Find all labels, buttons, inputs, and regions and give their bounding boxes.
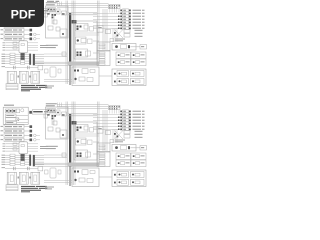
wire bbox=[19, 17, 28, 19]
wire drop B x112.1 bbox=[111, 110, 113, 114]
component A-A8 bbox=[45, 69, 49, 73]
wire bbox=[112, 28, 114, 42]
crossover wires A bbox=[115, 30, 124, 39]
wire ladder A row4 bbox=[3, 49, 6, 52]
page header text bbox=[47, 0, 59, 3]
relay B-K5 bbox=[97, 126, 103, 133]
switch A-S2 bbox=[1, 29, 4, 30]
wire stub B l3 bbox=[28, 150, 39, 152]
wire bbox=[61, 2, 63, 7]
wire bbox=[57, 3, 109, 5]
splice dot A-P4 bbox=[118, 22, 120, 24]
wire drop B x114.4 bbox=[113, 110, 115, 114]
wire bbox=[24, 130, 30, 132]
label A-E7 bbox=[133, 28, 142, 29]
junction box B-U4 bbox=[72, 168, 99, 187]
sensor row A-R1 bbox=[2, 53, 6, 56]
label A-E5 bbox=[133, 22, 142, 23]
wire bbox=[68, 12, 97, 14]
wire bbox=[93, 26, 99, 28]
lamp B-E1 bbox=[120, 111, 122, 113]
terminal A-XT1 bbox=[30, 24, 33, 27]
component A-A1 bbox=[62, 11, 67, 15]
bus wire x66 B bbox=[65, 102, 67, 186]
component B-A4 bbox=[56, 128, 60, 132]
bus wire x73.5 A bbox=[73, 1, 75, 85]
terminal B-XT4 bbox=[30, 139, 33, 142]
bus wire x105 A bbox=[104, 9, 106, 50]
lamp A-E5 bbox=[93, 21, 121, 23]
wire bbox=[44, 154, 67, 156]
component B-A1 bbox=[62, 112, 67, 116]
resistor A-R10 bbox=[124, 30, 130, 33]
label mid A bbox=[46, 45, 58, 46]
crossover wires B bbox=[115, 131, 124, 140]
bus wire x66 A bbox=[65, 1, 67, 85]
label cluster0 A bbox=[135, 30, 143, 31]
module A-M1 bbox=[7, 71, 16, 83]
connector bar A-XB1 bbox=[29, 54, 31, 65]
connector group A-G1 bbox=[116, 52, 131, 59]
sensor row B-R5 bbox=[2, 163, 6, 166]
switch B-S3 bbox=[1, 135, 4, 136]
terminal B-XT2 bbox=[30, 130, 33, 133]
wire bbox=[57, 7, 109, 9]
connector A-X3 bbox=[56, 9, 60, 14]
lamp A-E2 bbox=[93, 12, 121, 14]
wire drop A x114.4 bbox=[113, 9, 115, 13]
splice ring A-SR4 bbox=[34, 38, 37, 41]
PDF badge bbox=[0, 0, 44, 27]
harness band A bbox=[68, 62, 99, 66]
terminal B-XT3 bbox=[30, 134, 33, 137]
connector group B-G4 bbox=[131, 160, 146, 167]
wire bbox=[44, 79, 72, 81]
splice cluster A bbox=[52, 14, 57, 18]
wire bbox=[57, 104, 109, 106]
terminal block A-TB1 bbox=[97, 42, 110, 51]
terminal A-T5 bbox=[99, 61, 105, 63]
svg-text:PDF: PDF bbox=[11, 7, 36, 21]
splice ring B-SR4 bbox=[34, 139, 37, 142]
fuse A-F2 bbox=[13, 47, 17, 49]
lamp B-E4 bbox=[93, 119, 121, 121]
lamp A-E6 bbox=[93, 24, 121, 26]
bus wire x97.5 A bbox=[97, 1, 99, 65]
link B-J1 bbox=[18, 177, 20, 179]
wire bbox=[17, 122, 29, 124]
net label A-N2 bbox=[46, 4, 55, 5]
connector group B-G1 bbox=[116, 153, 131, 160]
wire bbox=[116, 129, 118, 143]
ground bus bar B bbox=[69, 114, 71, 167]
wire ladder A row2 bbox=[3, 44, 6, 47]
wire tag dash bbox=[47, 13, 50, 14]
fuse B-F2 bbox=[13, 148, 17, 150]
connector assembly B-CA2 bbox=[76, 138, 87, 145]
wire bbox=[44, 182, 72, 184]
wire bbox=[44, 81, 72, 83]
wire bbox=[35, 162, 68, 164]
label mid B bbox=[46, 146, 58, 147]
bus wire x99 B bbox=[98, 102, 100, 166]
connector B-X3 bbox=[56, 110, 60, 115]
bus wire x73.5 B bbox=[73, 102, 75, 186]
wire ladder B row4 bbox=[3, 150, 6, 153]
diode A-D1 bbox=[106, 30, 111, 34]
splice ring A-SR3 bbox=[34, 33, 37, 36]
label A-ECU bbox=[4, 4, 14, 5]
splice cluster B bbox=[52, 115, 57, 119]
terminal B-T3 bbox=[99, 158, 105, 160]
inline connector A-X5 bbox=[112, 44, 136, 51]
wire ladder B row1 bbox=[3, 142, 6, 145]
terminal strip A-TS1 bbox=[97, 51, 110, 66]
wire bbox=[35, 165, 68, 167]
switch A-S3 bbox=[1, 34, 4, 35]
wire bbox=[19, 118, 28, 120]
relay A-K5 bbox=[97, 25, 103, 32]
terminal B-T4 bbox=[99, 160, 105, 162]
connector bar B-XB2 bbox=[33, 155, 35, 166]
label cluster1 A bbox=[135, 33, 143, 34]
ground wire continuation A bbox=[69, 66, 71, 85]
inline connector A-X2 label box bbox=[32, 9, 50, 13]
label cluster0 B bbox=[135, 131, 143, 132]
lamp A-E1 bbox=[120, 10, 122, 12]
terminal A-XT2 bbox=[30, 29, 33, 32]
control unit A-U1 bbox=[3, 6, 28, 23]
wire tag dash bbox=[47, 114, 50, 115]
harness band B bbox=[68, 163, 99, 167]
splice dot A-P3 bbox=[118, 19, 120, 21]
component A-A9 bbox=[62, 52, 66, 56]
wire drop B x109.8 bbox=[109, 110, 111, 114]
wire bbox=[24, 134, 30, 136]
wire bbox=[44, 56, 67, 58]
wire bbox=[44, 180, 72, 182]
wire ladder A row3 bbox=[3, 46, 6, 49]
resistor B-R11 bbox=[124, 135, 130, 138]
terminal B-T5 bbox=[99, 162, 105, 164]
bus wire x97.5 B bbox=[97, 102, 99, 166]
terminal A-XT3 bbox=[30, 33, 33, 36]
wire bbox=[35, 61, 68, 63]
wire bbox=[93, 141, 99, 143]
net label A-N1 bbox=[46, 2, 57, 3]
wire bbox=[61, 103, 63, 108]
terminal A-T3 bbox=[99, 57, 105, 59]
connector group A-G4 bbox=[131, 59, 146, 66]
filter A-Z1 bbox=[38, 66, 43, 70]
bus wire x99 A bbox=[98, 1, 100, 65]
connector cells B-U1 row1 bbox=[6, 109, 20, 113]
resistor A-R11 bbox=[124, 34, 130, 37]
connector pair box B-U5 bbox=[112, 170, 146, 187]
component B-A6 bbox=[50, 168, 56, 178]
component B-A8 bbox=[45, 170, 49, 174]
connector group B-G3 bbox=[116, 160, 131, 167]
wire bbox=[75, 135, 100, 137]
wire drop A x116.7 bbox=[116, 9, 118, 13]
splice dot A-P10 bbox=[114, 32, 116, 34]
wire ladder B row2 bbox=[3, 145, 6, 148]
wire bbox=[112, 129, 114, 143]
relay A-K1 bbox=[6, 13, 17, 16]
connector pair A-CP1 bbox=[114, 73, 116, 75]
module B-M2 bbox=[19, 172, 28, 184]
wire tag dash bbox=[62, 114, 65, 115]
wire stub A l2 bbox=[28, 47, 39, 49]
component A-A4 bbox=[56, 27, 60, 31]
resistor B-R10 bbox=[124, 131, 130, 134]
inline connector B-X5 bbox=[112, 145, 136, 152]
component A-A2 bbox=[53, 20, 57, 24]
connector bar B-XB1 bbox=[29, 155, 31, 166]
lamp B-E5 bbox=[93, 122, 121, 124]
capacitor B-C2 bbox=[26, 167, 29, 170]
harness box B-U2 bbox=[46, 107, 69, 139]
indicator B-L1 bbox=[21, 109, 24, 112]
filter B-Z1 bbox=[38, 167, 43, 171]
connector pair B-CP2 bbox=[114, 182, 116, 184]
wire bbox=[57, 108, 109, 110]
capacitor A-C2 bbox=[26, 66, 29, 69]
label B-E1 bbox=[133, 111, 142, 112]
splice dot A-P2 bbox=[118, 16, 120, 18]
wire bbox=[24, 29, 30, 31]
connector pair box A-U5 bbox=[112, 69, 146, 86]
label cluster1 B bbox=[135, 134, 143, 135]
wire drop B x119.0 bbox=[118, 110, 120, 114]
label B-E3 bbox=[133, 117, 142, 118]
label cluster2 B bbox=[135, 137, 143, 138]
sensor row A-R4 bbox=[2, 60, 6, 63]
component A-A5 bbox=[60, 29, 67, 37]
wire bbox=[35, 164, 68, 166]
bus wire x107 A bbox=[106, 9, 108, 50]
bus wire x75 B bbox=[74, 102, 76, 186]
wire bbox=[75, 133, 100, 135]
wire bbox=[24, 38, 30, 40]
wire bbox=[24, 126, 30, 128]
wire bbox=[68, 113, 97, 115]
terminal strip B-TS1 bbox=[97, 152, 110, 167]
switch A-S4 bbox=[1, 38, 4, 39]
splice dot B-P2 bbox=[118, 117, 120, 119]
label B-ECU bbox=[4, 105, 14, 106]
junction box A-U4 bbox=[72, 67, 99, 86]
wire bbox=[68, 14, 97, 16]
connector B-X4 bbox=[44, 114, 47, 118]
component A-A3 bbox=[48, 26, 53, 30]
terminal A-T4 bbox=[99, 59, 105, 61]
bus wire x103 A bbox=[102, 9, 104, 50]
terminal B-XT1 bbox=[30, 125, 33, 128]
label A-E1 bbox=[133, 10, 142, 11]
label cluster2 A bbox=[135, 36, 143, 37]
connector assembly A-CA3 bbox=[76, 49, 88, 57]
wire bbox=[24, 139, 30, 141]
fuse A-F1 bbox=[13, 42, 17, 44]
wire bbox=[51, 9, 53, 24]
link B-J2 bbox=[29, 177, 31, 179]
splice dot B-P3 bbox=[118, 120, 120, 122]
connector assembly B-CA3 bbox=[76, 150, 88, 158]
wire bbox=[57, 2, 59, 7]
wire bbox=[24, 25, 30, 27]
wire bbox=[93, 52, 99, 54]
note text mid B bbox=[45, 187, 54, 188]
label block B bbox=[110, 139, 114, 143]
wire bbox=[44, 53, 67, 55]
relay A-K3 bbox=[6, 20, 17, 23]
switch B-S4 bbox=[1, 139, 4, 140]
splice dot A-P5 bbox=[118, 25, 120, 27]
note text B bbox=[21, 186, 47, 192]
wire bbox=[114, 129, 116, 143]
note text A bbox=[21, 85, 47, 91]
component A-A7 bbox=[58, 69, 61, 73]
wire bbox=[99, 176, 112, 178]
link A-J1 bbox=[18, 76, 20, 78]
wire bbox=[50, 111, 56, 113]
terminal A-T2 bbox=[99, 54, 105, 56]
connector A-X4 bbox=[44, 13, 47, 17]
wire stub A l0 bbox=[28, 42, 39, 44]
relay module B-K4 bbox=[19, 142, 28, 154]
lamp B-E6 bbox=[93, 125, 121, 127]
component B-A3 bbox=[48, 127, 53, 131]
splice dot B-P11 bbox=[117, 136, 119, 138]
junction box B-U3 bbox=[74, 122, 97, 160]
splice dot B-P4 bbox=[118, 123, 120, 125]
capacitor row B-C1 bbox=[2, 166, 6, 169]
wire drop A x112.1 bbox=[111, 9, 113, 13]
connector assembly A-CB1 bbox=[74, 70, 79, 72]
wire bbox=[44, 157, 67, 159]
wire stub B l1 bbox=[28, 145, 39, 147]
wire stub A l3 bbox=[28, 49, 39, 51]
connector cells A-U1 row1 bbox=[6, 8, 20, 12]
capacitor row A-C1 bbox=[2, 65, 6, 68]
inline connector B-X2 label box bbox=[32, 110, 50, 114]
terminal A-T6 bbox=[99, 64, 105, 66]
component B-A9 bbox=[62, 153, 66, 157]
terminal A-X1 bbox=[29, 10, 32, 13]
wire drop A x119.0 bbox=[118, 9, 120, 13]
lamp A-E4 bbox=[93, 18, 121, 20]
terminal A-T1 bbox=[99, 52, 105, 54]
wire tag dash bbox=[62, 13, 65, 14]
sensor row A-R5 bbox=[2, 62, 6, 65]
wire bbox=[75, 34, 100, 36]
label B-E5 bbox=[133, 123, 142, 124]
component B-A5 bbox=[60, 130, 67, 138]
connector group A-G2 bbox=[131, 52, 146, 59]
switch B-S1 bbox=[1, 126, 4, 127]
wire bbox=[35, 64, 68, 66]
wire bbox=[57, 106, 109, 108]
relay B-K3 bbox=[6, 121, 17, 124]
wire ladder B row3 bbox=[3, 147, 6, 150]
module A-M2 bbox=[19, 71, 28, 83]
wire bbox=[57, 5, 109, 7]
wire ladder A row1 bbox=[3, 41, 6, 44]
label ladder-out B bbox=[40, 146, 48, 147]
net label B-N2 bbox=[46, 105, 55, 106]
sensor row A-R2 bbox=[2, 55, 6, 58]
splice ring B-SR3 bbox=[34, 134, 37, 137]
module B-M1 bbox=[7, 172, 16, 184]
connector group B-G2 bbox=[131, 153, 146, 160]
fuse B-F1 bbox=[13, 143, 17, 145]
bus wire x67.5 B bbox=[67, 102, 69, 186]
label ladder-out A bbox=[40, 45, 48, 46]
wire bbox=[99, 75, 112, 77]
connector assembly B-CB1 bbox=[74, 171, 79, 173]
splice dot B-P10 bbox=[114, 133, 116, 135]
wire bbox=[59, 103, 61, 108]
label B-E6 bbox=[133, 126, 142, 127]
wire bbox=[53, 110, 55, 125]
connector assembly A-CA2 bbox=[76, 37, 87, 44]
label B-E4 bbox=[133, 120, 142, 121]
wire bbox=[114, 28, 116, 42]
sensor row B-R2 bbox=[2, 156, 6, 159]
wire bbox=[16, 14, 28, 16]
fuse block A-FB1 bbox=[109, 5, 121, 9]
wire bbox=[53, 9, 55, 24]
lamp B-E2 bbox=[93, 113, 121, 115]
connector cells A-U2 row bbox=[47, 8, 56, 12]
switch B-S2 bbox=[1, 130, 4, 131]
wire bbox=[93, 153, 99, 155]
connector assembly B-CA1 bbox=[76, 125, 89, 133]
section A: wiring diagram half bbox=[1, 1, 147, 92]
module A-M3 bbox=[31, 71, 40, 83]
connector group A-G3 bbox=[116, 59, 131, 66]
sensor row B-R1 bbox=[2, 154, 6, 157]
splice box A bbox=[72, 20, 77, 24]
splice dot B-P6 bbox=[118, 129, 120, 131]
legend table B bbox=[6, 185, 18, 191]
section B: wiring diagram half bbox=[1, 102, 147, 193]
lamp B-E3 bbox=[93, 116, 121, 118]
connector cells B-U2 row bbox=[47, 109, 56, 113]
connector assembly A-CB2 bbox=[74, 78, 76, 80]
wire bbox=[35, 63, 68, 65]
bus wire x72 B bbox=[71, 102, 73, 186]
harness box A-U2 bbox=[46, 6, 69, 38]
lamp B-E7 bbox=[93, 128, 121, 130]
relay module A-K4 bbox=[19, 41, 28, 53]
connector bar A-XB2 bbox=[33, 54, 35, 65]
bus wire x72 A bbox=[71, 1, 73, 85]
note text mid A bbox=[45, 86, 54, 87]
relay B-K2 bbox=[6, 118, 19, 121]
wire stub A l1 bbox=[28, 44, 39, 46]
sensor row A-R3 bbox=[2, 57, 6, 60]
bus wire x105 B bbox=[104, 110, 106, 151]
sensor row B-R4 bbox=[2, 161, 6, 164]
connector pair A-CP2 bbox=[114, 81, 116, 83]
bus wire x67.5 A bbox=[67, 1, 69, 85]
terminal B-T1 bbox=[99, 153, 105, 155]
wire bbox=[50, 10, 56, 12]
label A-E2 bbox=[133, 13, 142, 14]
wire drop B x116.7 bbox=[116, 110, 118, 114]
